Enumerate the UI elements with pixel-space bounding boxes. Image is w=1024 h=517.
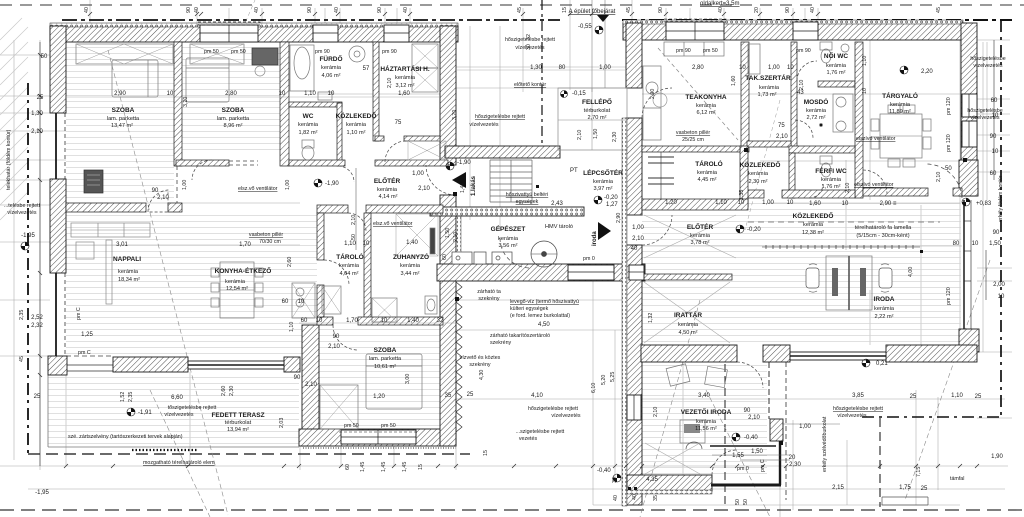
svg-text:2,80: 2,80 [692, 65, 704, 71]
svg-text:(e ford. lemez burkolattal): (e ford. lemez burkolattal) [510, 313, 570, 319]
dashed arc gepeszet [500, 238, 530, 268]
svg-text:vasbeton pillér: vasbeton pillér [249, 232, 283, 238]
svg-text:egységek: egységek [516, 199, 539, 205]
office west wall insulation strip [622, 118, 627, 506]
svg-text:18,34 m²: 18,34 m² [118, 277, 140, 283]
svg-text:40: 40 [718, 7, 724, 13]
office east lower corner block [959, 329, 979, 352]
svg-text:lam. parketta: lam. parketta [369, 356, 402, 362]
door arc irattar-vezetoi [737, 362, 763, 388]
svg-text:20: 20 [789, 455, 796, 461]
svg-text:1,10: 1,10 [304, 91, 316, 97]
room label furdo [319, 54, 342, 79]
svg-text:25: 25 [910, 394, 917, 400]
heat pump units [452, 252, 512, 264]
partition block south b [358, 317, 443, 325]
svg-text:pm C: pm C [760, 459, 766, 472]
svg-text:pm 50: pm 50 [381, 423, 396, 429]
svg-text:10: 10 [972, 241, 979, 247]
svg-text:2,90: 2,90 [650, 89, 656, 99]
svg-text:3,44 m²: 3,44 m² [401, 271, 420, 277]
svg-text:-1,90: -1,90 [457, 160, 471, 166]
office east wall upper [961, 23, 977, 196]
svg-text:1,90: 1,90 [991, 454, 1003, 460]
svg-text:2,30: 2,30 [612, 132, 618, 142]
door arc konyha east [324, 260, 349, 285]
svg-text:2,30: 2,30 [229, 386, 235, 396]
annotation szekreny lower [460, 355, 501, 368]
bottom vezetoi dims [740, 459, 790, 461]
bottom dim line ticks [64, 464, 979, 468]
svg-text:25: 25 [467, 392, 474, 398]
svg-text:0,21: 0,21 [876, 361, 888, 367]
svg-text:ZUHANYZÓ: ZUHANYZÓ [393, 252, 429, 261]
dashed door diagonal teakonyha [658, 48, 738, 140]
svg-text:SZOBA: SZOBA [374, 347, 397, 354]
svg-text:2,52: 2,52 [31, 315, 43, 321]
svg-text:TÁRGYALÓ: TÁRGYALÓ [882, 91, 918, 100]
svg-text:1,50: 1,50 [445, 228, 451, 238]
svg-text:50: 50 [351, 234, 357, 240]
svg-text:2,35: 2,35 [19, 310, 25, 320]
office partition targyalo west [855, 42, 863, 198]
svg-text:1,10: 1,10 [862, 56, 868, 66]
svg-text:6,12 m²: 6,12 m² [697, 110, 716, 116]
svg-text:1,45: 1,45 [402, 462, 408, 472]
svg-text:-1,95: -1,95 [21, 233, 35, 239]
apartment east wall lower [440, 195, 456, 446]
office south wall seg3 (iroda) [886, 345, 977, 362]
room label nappali [113, 256, 141, 283]
office top wall insulation [623, 20, 963, 24]
svg-text:vízvető és köztes: vízvető és köztes [460, 355, 501, 361]
svg-text:lam. parketta: lam. parketta [217, 116, 250, 122]
haztartasi counter [412, 44, 438, 92]
windows SE room bottom [339, 430, 418, 444]
partition szoba2 south [176, 160, 229, 166]
svg-text:10: 10 [328, 91, 335, 97]
office east wall corner block [959, 160, 978, 196]
iroda desks [806, 256, 892, 310]
LAYER: parquet textures [48, 42, 961, 475]
office top window 1 [664, 19, 726, 40]
terrace dotted edge [132, 449, 198, 451]
svg-text:-0,55: -0,55 [578, 24, 592, 30]
svg-text:90: 90 [186, 7, 192, 13]
svg-text:kerámia: kerámia [593, 179, 614, 185]
svg-text:1,32: 1,32 [648, 313, 654, 323]
svg-text:2,00: 2,00 [993, 282, 1005, 288]
svg-text:40: 40 [254, 7, 260, 13]
partition szoba1 south a [66, 203, 146, 212]
svg-text:FEDETT TERASZ: FEDETT TERASZ [211, 412, 264, 419]
svg-text:-0,20: -0,20 [604, 195, 618, 201]
svg-text:1,30: 1,30 [31, 111, 43, 117]
svg-text:4,35: 4,35 [646, 477, 658, 483]
svg-text:kerámia: kerámia [696, 103, 717, 109]
office big room floor [642, 198, 961, 345]
svg-text:1,30: 1,30 [530, 65, 542, 71]
takszertar shelf [748, 44, 760, 74]
svg-text:előtető kontúr: előtető kontúr [514, 82, 546, 88]
svg-text:2,10: 2,10 [776, 134, 788, 140]
svg-text:2,70 m²: 2,70 m² [588, 115, 607, 121]
svg-text:vízelvezetés: vízelvezetés [469, 122, 498, 128]
neighbour hatch texture top-left [0, 18, 28, 220]
svg-text:4,06 m²: 4,06 m² [322, 73, 341, 79]
svg-text:pm 50: pm 50 [204, 49, 219, 55]
dashed diag mid bottom [640, 300, 700, 517]
apartment internal dim row [66, 96, 440, 98]
partition tarolo/zuhanyzo [364, 213, 371, 318]
svg-text:4,14 m²: 4,14 m² [379, 194, 398, 200]
svg-text:1,60: 1,60 [731, 76, 737, 86]
window furdo top [313, 25, 338, 42]
south window strip west [66, 365, 113, 371]
room label gepeszet [491, 224, 526, 249]
room label takszertar [745, 73, 791, 98]
level texts [138, 24, 992, 474]
furdo washer circle [349, 46, 365, 62]
svg-text:4,45 m²: 4,45 m² [698, 177, 717, 183]
svg-text:10,61 m²: 10,61 m² [374, 364, 396, 370]
svg-text:6,10: 6,10 [591, 383, 597, 393]
svg-text:GÉPÉSZET: GÉPÉSZET [491, 224, 526, 233]
svg-text:6,60: 6,60 [171, 395, 183, 401]
svg-text:10: 10 [998, 294, 1005, 300]
room label konyha [215, 266, 272, 292]
svg-text:1,40: 1,40 [460, 183, 466, 193]
LAYER: doors/arcs [148, 15, 962, 475]
svg-text:25/25 cm: 25/25 cm [682, 137, 704, 143]
noi wc toilet [820, 42, 849, 63]
svg-text:kerámia: kerámia [225, 279, 246, 285]
office south corridor wall a [746, 190, 764, 198]
terrace floor [48, 375, 299, 446]
svg-text:kerámia: kerámia [321, 65, 342, 71]
office partition mosdo south [789, 146, 855, 153]
furdo tub [290, 45, 314, 91]
svg-text:TEAKONYHA: TEAKONYHA [685, 94, 726, 101]
svg-text:30: 30 [526, 44, 532, 50]
door arc ferfi wc [809, 184, 823, 198]
annotation hoszivattyu belteri [506, 192, 548, 205]
svg-text:2,10: 2,10 [936, 172, 942, 182]
svg-text:50: 50 [41, 54, 48, 60]
svg-text:1,76 m²: 1,76 m² [822, 184, 841, 190]
office east windows [962, 94, 977, 117]
svg-text:-1,90: -1,90 [325, 181, 339, 187]
svg-text:10: 10 [298, 299, 305, 305]
room label kozlekedo 2,30 [740, 160, 781, 185]
annotation zarhato takarito [490, 333, 550, 346]
partition furdo south [289, 102, 342, 107]
svg-text:IRODA: IRODA [874, 296, 895, 303]
svg-text:40: 40 [194, 7, 200, 13]
west wall junction window [629, 265, 644, 280]
svg-text:2,10: 2,10 [31, 129, 43, 135]
svg-text:1,40: 1,40 [407, 318, 419, 324]
svg-text:telekhatár (földém kontúr): telekhatár (földém kontúr) [6, 129, 12, 190]
svg-text:57: 57 [363, 66, 370, 72]
dashed arc targyalo NE [926, 164, 962, 198]
svg-text:mozgatható térelhatároló elem: mozgatható térelhatároló elem [143, 460, 215, 466]
svg-text:1,82 m²: 1,82 m² [299, 130, 318, 136]
svg-text:pm 50: pm 50 [344, 423, 359, 429]
svg-text:TÁROLÓ: TÁROLÓ [695, 159, 722, 168]
vezetoi south step line [710, 445, 776, 447]
window left wall upper (nappali corner glazing) [56, 113, 65, 179]
svg-text:-1,95: -1,95 [35, 490, 49, 496]
partition wc south b (eloter north) [375, 160, 448, 166]
svg-text:1,10: 1,10 [289, 322, 295, 332]
svg-text:WC: WC [303, 113, 314, 120]
window left wall lower [56, 273, 65, 356]
svg-text:FELLÉPŐ: FELLÉPŐ [582, 97, 612, 106]
partition konyha east a [317, 213, 324, 260]
corridor dim row [768, 202, 960, 204]
svg-text:75: 75 [778, 123, 785, 129]
ferfi wc toilet [820, 156, 832, 177]
svg-text:2,43: 2,43 [551, 201, 563, 207]
svg-text:-0,40: -0,40 [597, 468, 611, 474]
svg-text:FÉRFI WC: FÉRFI WC [815, 166, 847, 175]
dashed vertical balcony [785, 362, 787, 500]
svg-text:3,97 m²: 3,97 m² [594, 186, 613, 192]
svg-text:2,90: 2,90 [616, 213, 622, 223]
irattar chairs [0, 0, 1, 1]
svg-text:pm 50: pm 50 [231, 49, 246, 55]
vezetoi desk [680, 420, 705, 449]
svg-text:2,10: 2,10 [387, 78, 393, 88]
mechanical room south window [568, 265, 614, 280]
office tarolo south [642, 199, 748, 210]
office tarolo north [642, 146, 740, 152]
svg-text:vízelvezetés: vízelvezetés [837, 413, 866, 419]
svg-text:40: 40 [810, 7, 816, 13]
property line top [0, 4, 1024, 6]
svg-text:10: 10 [992, 113, 999, 119]
svg-text:-0,20: -0,20 [747, 227, 761, 233]
office partition teakonyha east [741, 42, 749, 152]
svg-text:TÁROLÓ: TÁROLÓ [336, 252, 363, 261]
svg-text:15: 15 [418, 464, 424, 470]
nappali sofa [71, 223, 150, 304]
svg-text:kerámia: kerámia [826, 63, 847, 69]
svg-text:60: 60 [990, 171, 997, 177]
svg-text:vízelvezetés: vízelvezetés [164, 412, 193, 418]
mosdo sinks [653, 93, 853, 132]
partition haztartasi west [373, 42, 379, 141]
annotation hosz bottom mid [528, 406, 581, 419]
office tarolo east wall [740, 146, 748, 207]
terrace sliding door [188, 361, 284, 369]
office south corridor wall c [863, 188, 928, 196]
svg-text:1.lakás: 1.lakás [471, 175, 477, 196]
svg-text:kerámia: kerámia [339, 263, 360, 269]
svg-text:11,89 m²: 11,89 m² [889, 109, 911, 115]
svg-text:2,10: 2,10 [799, 80, 805, 90]
svg-text:50: 50 [743, 499, 749, 505]
svg-text:1,10: 1,10 [951, 393, 963, 399]
SE szoba wardrobe [320, 385, 358, 429]
svg-text:zárható takarítószertároló: zárható takarítószertároló [490, 333, 550, 339]
apartment left wall lower corner [48, 356, 67, 375]
apartment south wall hatch (kitchen) [113, 357, 188, 372]
room label mosdo [804, 97, 829, 121]
svg-text:2,90: 2,90 [114, 91, 126, 97]
dashed vezetoi east opening a [768, 362, 770, 419]
svg-text:1,70: 1,70 [239, 242, 251, 248]
svg-text:kerámia: kerámia [690, 233, 711, 239]
svg-text:5,25: 5,25 [610, 372, 616, 382]
svg-text:térelhatároló fa lamella: térelhatároló fa lamella [855, 225, 912, 231]
svg-text:2,20: 2,20 [921, 69, 933, 75]
irattar X storage [644, 215, 736, 474]
partition tarolo block north a [317, 205, 348, 213]
office partition noi wc south [818, 81, 855, 87]
svg-text:ELŐTÉR: ELŐTÉR [687, 222, 714, 231]
svg-text:2,80: 2,80 [225, 91, 237, 97]
dashed diag right bottom2 [745, 100, 780, 230]
annotation vasbeton 25/25 [676, 130, 710, 143]
svg-text:pm 120: pm 120 [946, 287, 952, 305]
svg-text:4,10: 4,10 [531, 393, 543, 399]
svg-text:kerámia: kerámia [874, 306, 895, 312]
svg-text:FÜRDŐ: FÜRDŐ [319, 54, 342, 63]
svg-text:pm 90: pm 90 [676, 48, 691, 54]
dashed roof diag terrace b [150, 390, 210, 517]
svg-text:90: 90 [294, 375, 301, 381]
door arc tarolo block [348, 213, 366, 231]
svg-text:1,50: 1,50 [593, 129, 599, 139]
svg-text:1,27: 1,27 [606, 202, 618, 208]
svg-text:1,20: 1,20 [373, 394, 385, 400]
svg-text:1,75: 1,75 [899, 485, 911, 491]
SE room bottom wall [299, 429, 456, 446]
door arc szoba2 [192, 160, 212, 180]
svg-text:90: 90 [785, 7, 791, 13]
partition szoba2/furdo [280, 42, 289, 166]
svg-text:2,10: 2,10 [328, 344, 340, 350]
svg-text:35: 35 [653, 495, 659, 501]
office south wall seg1 (irattar) [641, 345, 737, 362]
svg-text:1,00: 1,00 [632, 225, 644, 231]
svg-text:kerámia: kerámia [696, 419, 717, 425]
svg-text:-0,15: -0,15 [572, 91, 586, 97]
office irattar north [642, 274, 732, 280]
partition block south a [317, 317, 333, 325]
svg-text:VEZETŐI IRODA: VEZETŐI IRODA [681, 407, 732, 416]
svg-text:2,22 m²: 2,22 m² [875, 314, 894, 320]
svg-text:90: 90 [658, 7, 664, 13]
door arc office elotér [642, 215, 672, 245]
arrow office main entrance [597, 15, 609, 22]
top dim ticks [88, 12, 820, 16]
svg-text:1,55: 1,55 [732, 453, 744, 459]
svg-text:NAPPALI: NAPPALI [113, 256, 141, 263]
svg-text:pm 0: pm 0 [583, 256, 595, 262]
svg-text:30: 30 [612, 477, 618, 483]
svg-text:2,10: 2,10 [305, 382, 317, 388]
svg-text:1,00: 1,00 [599, 65, 611, 71]
svg-text:pm 90: pm 90 [315, 49, 330, 55]
svg-text:2,10: 2,10 [653, 407, 659, 417]
svg-text:1,00: 1,00 [762, 200, 774, 206]
dashed vertical vezetoi east [724, 352, 726, 505]
svg-text:...szigetelésbe rejtett: ...szigetelésbe rejtett [516, 429, 565, 435]
svg-text:45: 45 [19, 356, 25, 362]
svg-text:3,56 m²: 3,56 m² [499, 243, 518, 249]
office west wall s3 [626, 245, 642, 505]
pm labels [78, 48, 811, 472]
room label iroda [874, 296, 895, 320]
partition wc/kozlekedo [337, 103, 342, 166]
room label tarolo apt [336, 252, 363, 277]
office south wall seg2 [763, 345, 790, 362]
svg-text:90: 90 [307, 7, 313, 13]
svg-text:8,96 m²: 8,96 m² [224, 123, 243, 129]
svg-text:25: 25 [975, 394, 982, 400]
svg-text:vezetés: vezetés [519, 436, 538, 442]
door arc haztartasi [385, 141, 406, 162]
vezetoi floor [642, 362, 767, 475]
svg-text:NŐI WC: NŐI WC [824, 51, 848, 60]
svg-text:35: 35 [445, 393, 452, 399]
svg-text:elsz.vő ventilátor: elsz.vő ventilátor [373, 221, 413, 227]
SE room west wall [302, 325, 319, 446]
svg-text:elszívó ventilátor: elszívó ventilátor [854, 182, 894, 188]
svg-text:térburkolat: térburkolat [584, 108, 611, 114]
left dim line [39, 42, 41, 466]
szoba2 floor [182, 42, 280, 153]
nappali media wall [84, 170, 103, 193]
svg-text:2,10: 2,10 [577, 130, 583, 140]
svg-text:szekrény: szekrény [469, 362, 491, 368]
annotation toszigetelesbe [164, 405, 216, 418]
annotation hosz right 2 [967, 108, 1002, 121]
hmv tank [531, 241, 557, 267]
annotation hosz bottom right [833, 406, 884, 419]
svg-text:60: 60 [345, 464, 351, 470]
svg-text:kerámia: kerámia [806, 108, 827, 114]
room label zuhanyzo [393, 252, 429, 277]
targyalo table [871, 105, 931, 167]
svg-text:kerámia: kerámia [759, 85, 780, 91]
svg-text:iroda: iroda [592, 231, 598, 246]
svg-text:kerámia: kerámia [118, 269, 139, 275]
svg-text:3,01: 3,01 [116, 242, 128, 248]
door arc szoba1 [148, 190, 168, 212]
svg-text:4,04 m²: 4,04 m² [340, 271, 359, 277]
svg-text:2,30 m²: 2,30 m² [749, 179, 768, 185]
svg-text:2,72 m²: 2,72 m² [807, 115, 826, 121]
svg-text:pm C: pm C [76, 307, 82, 320]
svg-text:80: 80 [953, 241, 960, 247]
svg-text:32: 32 [437, 318, 444, 324]
room label fedett terasz [211, 412, 264, 433]
svg-text:90: 90 [152, 188, 159, 194]
annotation hosz bottom mid2 [516, 429, 565, 442]
svg-text:80: 80 [559, 65, 566, 71]
annotation levego-viz [510, 299, 579, 319]
svg-text:kerámia: kerámia [890, 102, 911, 108]
apartment left wall upper [50, 26, 66, 113]
arrow iroda entrance [598, 222, 611, 240]
svg-text:45: 45 [626, 7, 632, 13]
room label kozlekedo small [336, 111, 377, 136]
door arc targyalo [863, 170, 887, 194]
